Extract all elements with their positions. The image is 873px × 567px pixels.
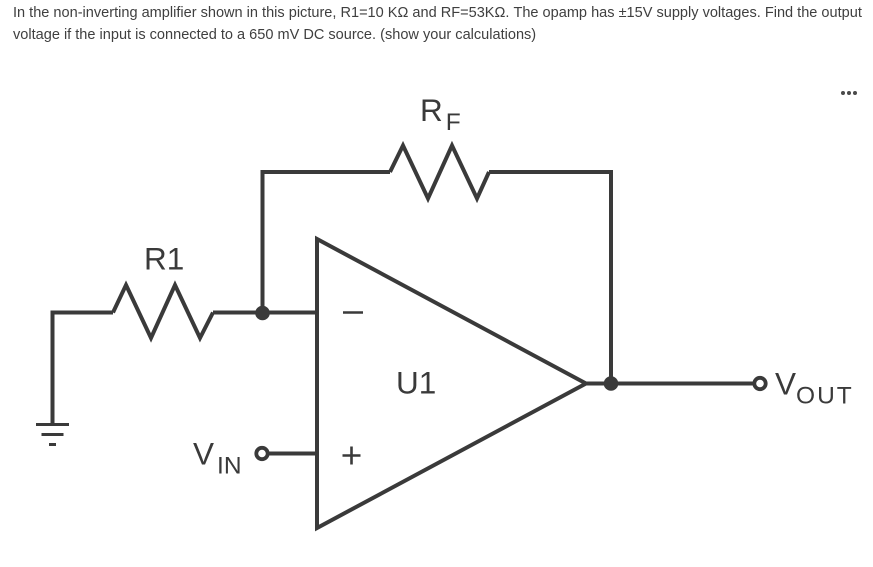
svg-text:R1: R1: [144, 241, 184, 277]
terminal VIN: [256, 448, 267, 459]
wire: R1 to inverting input: [213, 311, 317, 315]
op-amp inverting input marker (-): [343, 311, 363, 314]
menu dots: [841, 91, 859, 95]
resistor RF: [390, 146, 489, 199]
svg-text:VIN: VIN: [193, 436, 242, 480]
node: output junction: [604, 376, 619, 391]
op-amp non-inverting input marker (+): [343, 447, 361, 465]
resistor R1: [113, 285, 213, 338]
node: inverting input junction: [255, 306, 270, 321]
wire: output: [586, 382, 754, 386]
wire: R1 left lead: [51, 311, 114, 315]
wire: feedback right branch: [489, 172, 611, 384]
svg-text:RF: RF: [420, 92, 461, 136]
question text: [13, 3, 873, 46]
op-amp U1: [317, 239, 586, 528]
ground: [36, 425, 69, 445]
wire: left vertical to ground: [51, 311, 55, 424]
terminal VOUT: [754, 378, 765, 389]
wire: feedback left branch: [263, 172, 391, 313]
wire: VIN to non-inverting input: [266, 452, 317, 456]
svg-text:VOUT: VOUT: [775, 366, 854, 410]
svg-text:U1: U1: [396, 365, 436, 401]
